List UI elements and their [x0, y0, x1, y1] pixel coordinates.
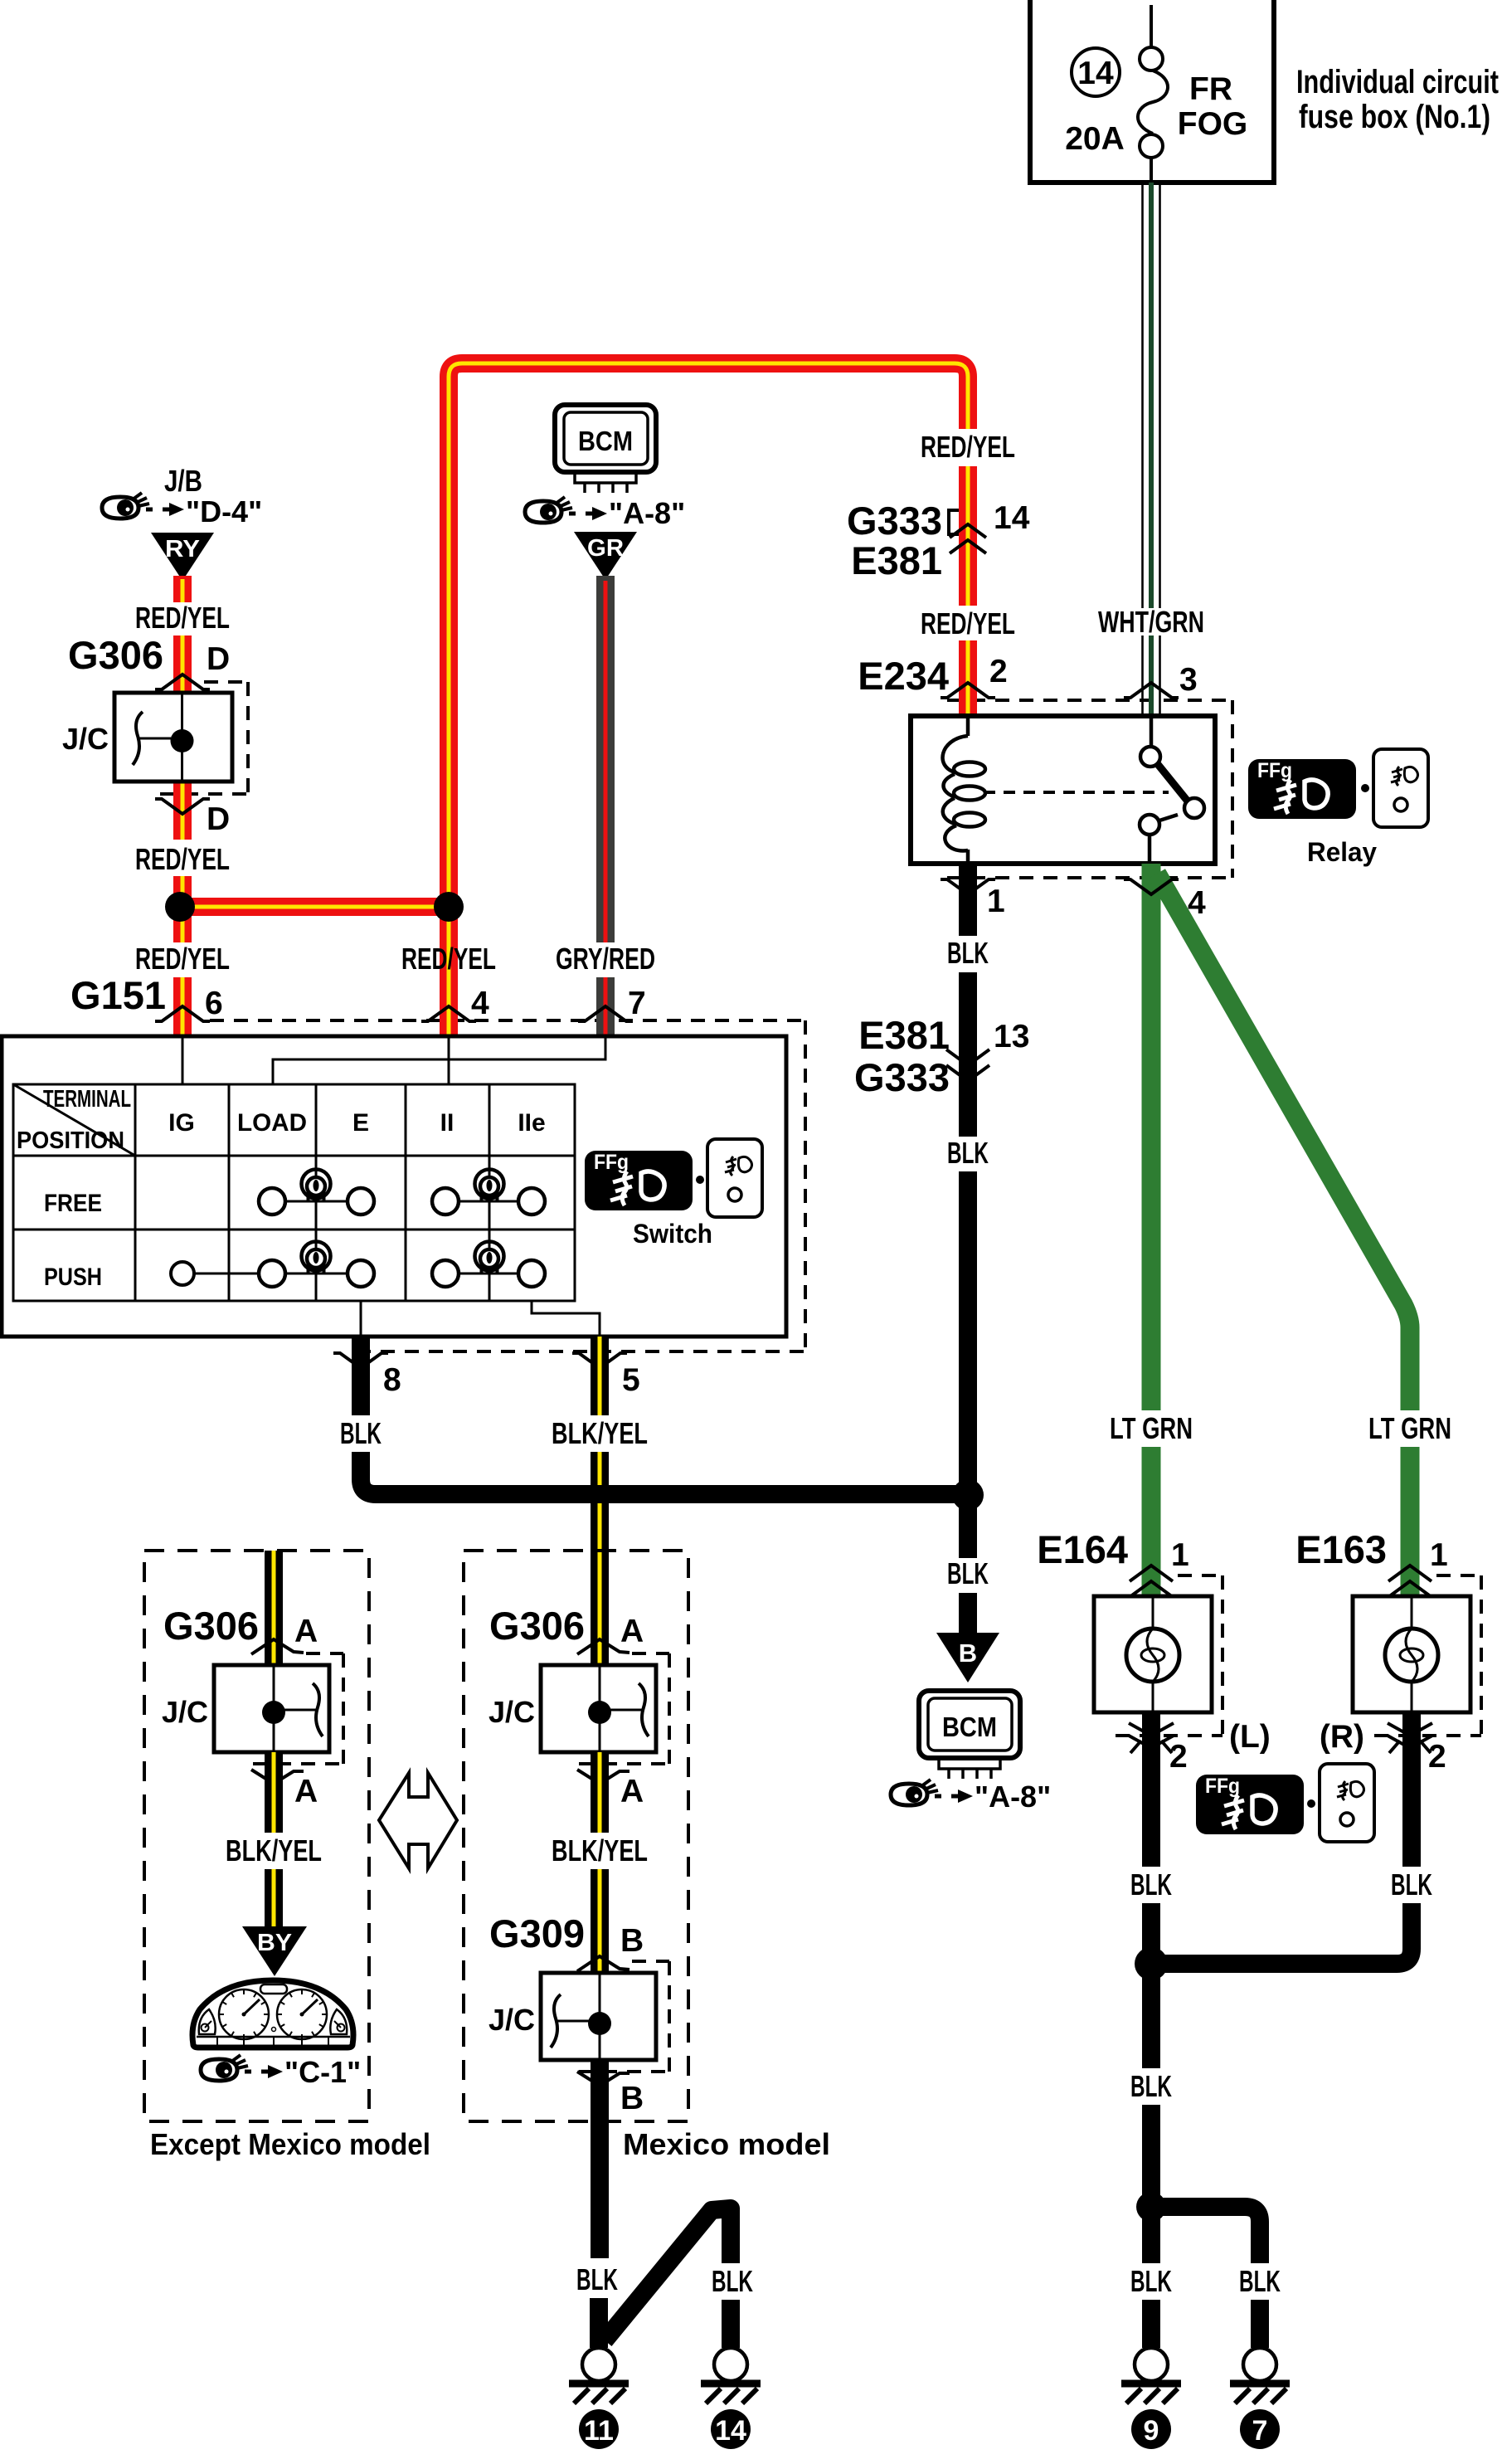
relay box	[911, 716, 1215, 864]
fog icon pair between lamps	[1196, 1775, 1304, 1834]
J/C box G309	[541, 1973, 656, 2060]
pin A chevron (in)	[251, 1639, 304, 1654]
svg-text:G306: G306	[68, 633, 163, 677]
eye icon	[201, 2055, 248, 2081]
svg-text:BLK/YEL: BLK/YEL	[552, 1833, 648, 1867]
dashed arrow	[245, 2070, 270, 2074]
dashed arrow to D-4	[146, 508, 171, 512]
BCM module (top)	[525, 405, 685, 580]
wire BLK from relay pin1 down to B arrow	[854, 864, 1029, 1682]
svg-text:2: 2	[1428, 1739, 1446, 1775]
svg-text:"A-8": "A-8"	[975, 1780, 1051, 1814]
fuse number 14 circle	[1072, 48, 1120, 96]
svg-text:"C-1": "C-1"	[284, 2055, 361, 2089]
pin 6 chevron	[155, 1006, 210, 1021]
pin 8 chevron	[333, 1353, 388, 1368]
wire BLK from E163 pin2 joining left	[1135, 1712, 1432, 1980]
svg-text:RED/YEL: RED/YEL	[401, 942, 496, 976]
svg-text:20A: 20A	[1065, 121, 1125, 157]
eye icon	[525, 497, 572, 523]
bulb	[1126, 1629, 1179, 1682]
svg-text:PUSH: PUSH	[44, 1264, 102, 1291]
Individual circuit fuse box (No.1)	[1030, 0, 1499, 183]
svg-text:J/C: J/C	[162, 1695, 208, 1729]
svg-text:(L): (L)	[1229, 1719, 1271, 1755]
svg-text:Switch: Switch	[633, 1219, 712, 1249]
svg-text:RED/YEL: RED/YEL	[135, 601, 230, 635]
svg-text:11: 11	[584, 2415, 614, 2447]
instrument cluster icon	[192, 1980, 353, 2048]
svg-text:FOG: FOG	[1178, 106, 1248, 142]
wire RED/YEL top run from BCM corner to E234	[401, 363, 1015, 1036]
node J/B "D-4" reference	[102, 464, 262, 581]
lamp box	[1094, 1596, 1212, 1712]
junction dot	[1135, 1947, 1168, 1980]
wire BLK to ground 11	[576, 2262, 618, 2348]
pin B chevron (out)	[577, 2072, 629, 2086]
svg-text:BLK: BLK	[712, 2264, 753, 2298]
svg-text:BLK: BLK	[1130, 2264, 1172, 2298]
svg-text:BLK: BLK	[947, 1136, 989, 1170]
svg-text:Except Mexico model: Except Mexico model	[150, 2127, 430, 2161]
pin 2 double chevron	[1129, 1723, 1174, 1736]
svg-text:2: 2	[989, 654, 1008, 689]
lamp box	[1353, 1596, 1470, 1712]
eye icon	[102, 493, 149, 519]
triangle GR	[574, 532, 637, 580]
svg-text:RED/YEL: RED/YEL	[921, 430, 1015, 464]
svg-text:WHT/GRN: WHT/GRN	[1098, 605, 1204, 639]
pin 3 chevron	[1124, 683, 1179, 698]
E163 connector dashed outline	[1374, 1575, 1481, 1736]
svg-text:4: 4	[1188, 885, 1206, 921]
svg-text:13: 13	[994, 1019, 1029, 1054]
svg-text:II: II	[440, 1109, 454, 1137]
PUSH row contacts IG-LOAD-E	[171, 1242, 374, 1288]
squiggle	[551, 1994, 561, 2048]
svg-text:IIe: IIe	[518, 1109, 545, 1137]
relay switch icon (white)	[1373, 749, 1428, 827]
svg-text:14: 14	[1077, 56, 1114, 91]
arrow B to BCM	[936, 1633, 999, 1682]
svg-text:Relay: Relay	[1307, 837, 1377, 867]
svg-text:A: A	[620, 1774, 644, 1809]
svg-text:G306: G306	[489, 1604, 585, 1648]
svg-text:D: D	[207, 801, 230, 837]
pin 4 chevron	[421, 1006, 476, 1021]
svg-text:B: B	[620, 2081, 644, 2116]
eye icon	[891, 1780, 938, 1805]
pin D chevron (in)	[155, 674, 210, 689]
svg-text:BLK: BLK	[947, 936, 989, 970]
svg-text:J/C: J/C	[489, 2003, 535, 2037]
pin 5 chevron	[572, 1353, 627, 1368]
triangle RY (from junction block)	[151, 533, 214, 581]
svg-text:B: B	[620, 1923, 644, 1959]
wire RED/YEL left branch (x=220)	[135, 576, 230, 1036]
svg-text:G306: G306	[163, 1604, 259, 1648]
svg-text:8: 8	[383, 1362, 401, 1398]
J/C box	[541, 1665, 656, 1752]
junction dot	[262, 1701, 285, 1724]
junction dot right	[434, 892, 464, 922]
connector E234 pin 2	[858, 654, 1007, 698]
wire RED/YEL horizontal between junctions	[165, 892, 464, 922]
svg-text:LT GRN: LT GRN	[1368, 1411, 1451, 1445]
svg-text:G333: G333	[854, 1055, 950, 1099]
ground 11	[569, 2348, 629, 2449]
pin 1 chevron	[941, 879, 995, 894]
svg-text:Individual circuit: Individual circuit	[1296, 64, 1499, 100]
G333 in-line connector square	[949, 510, 968, 534]
svg-text:BLK: BLK	[576, 2262, 618, 2296]
svg-text:BLK: BLK	[947, 1556, 989, 1590]
svg-text:BLK/YEL: BLK/YEL	[552, 1416, 648, 1450]
J/C box	[214, 1665, 329, 1752]
pin 2 double chevron	[1388, 1723, 1432, 1736]
G309 inner connector dashed outline	[579, 1961, 669, 2072]
junction dot	[1136, 2192, 1166, 2222]
ground 9	[1121, 2348, 1181, 2449]
wire LT GRN relay pin4 diagonal to E163 (right lamp)	[1157, 874, 1451, 1596]
double chevron pin 1	[1388, 1566, 1432, 1581]
BCM module (bottom)	[891, 1691, 1051, 1814]
dot separator	[696, 1176, 704, 1184]
svg-text:E381: E381	[858, 1013, 950, 1057]
fuse 14 20A FR FOG	[1138, 5, 1168, 183]
dashed arrow	[935, 1794, 960, 1799]
pin A chevron (out)	[577, 1770, 629, 1784]
pin D chevron (out)	[155, 799, 210, 814]
svg-text:1: 1	[1171, 1537, 1189, 1573]
svg-text:(R): (R)	[1320, 1719, 1364, 1755]
double chevron up	[950, 524, 986, 538]
wire BLK/YEL to BY arrow	[265, 1752, 283, 1833]
svg-text:14: 14	[715, 2415, 746, 2447]
pin 4 chevron	[1124, 879, 1179, 894]
pin B chevron (in)	[577, 1956, 629, 1971]
wire BLK branch to ground 7	[1130, 2192, 1281, 2348]
dot separator	[1361, 784, 1369, 792]
Mexico model variant box	[464, 1551, 830, 2258]
squiggle	[639, 1683, 649, 1736]
svg-text:BLK: BLK	[1391, 1867, 1432, 1902]
squiggle	[313, 1683, 323, 1736]
svg-text:A: A	[294, 1614, 318, 1649]
wire BLK below G309	[591, 2060, 609, 2258]
relay actuation dashed link	[984, 791, 1169, 794]
E164 connector dashed outline	[1116, 1575, 1223, 1736]
junction dot left	[165, 892, 195, 922]
pin A chevron (out)	[251, 1770, 304, 1784]
svg-text:6: 6	[205, 986, 223, 1021]
wire BLK/YEL from switch pin 5 down	[552, 1337, 648, 1665]
J/C box	[114, 693, 232, 782]
junction dot	[588, 1701, 611, 1724]
junction dot with pin8 horizontal	[952, 1479, 984, 1511]
svg-text:FR: FR	[1189, 71, 1232, 107]
svg-text:7: 7	[628, 986, 646, 1021]
connector/variant dashed outlines (under-layer)	[160, 510, 1481, 2072]
svg-text:GRY/RED: GRY/RED	[556, 942, 655, 976]
Except Mexico model variant box	[144, 1551, 430, 2161]
svg-text:BLK: BLK	[340, 1416, 382, 1450]
svg-text:BLK: BLK	[1239, 2264, 1281, 2298]
svg-text:5: 5	[622, 1362, 640, 1398]
wire BLK/YEL (variant)	[265, 1551, 283, 1665]
svg-text:Mexico model: Mexico model	[623, 2127, 830, 2161]
switch icon (white)	[707, 1139, 762, 1217]
internal wires	[182, 1036, 605, 1337]
pin 7 chevron	[578, 1006, 633, 1021]
svg-text:E163: E163	[1295, 1527, 1387, 1571]
svg-text:POSITION: POSITION	[17, 1127, 124, 1154]
relay FR FOG	[911, 716, 1215, 864]
switch fog icon (black)	[585, 1151, 693, 1210]
svg-text:1: 1	[1430, 1537, 1448, 1573]
svg-text:GR: GR	[587, 535, 624, 562]
svg-text:BLK: BLK	[1130, 2069, 1172, 2103]
pin A chevron (in)	[577, 1639, 629, 1654]
svg-text:1: 1	[987, 884, 1005, 919]
svg-text:BLK: BLK	[1130, 1867, 1172, 1902]
svg-text:E: E	[352, 1109, 369, 1137]
triangle BY (to meter)	[242, 1926, 307, 1976]
svg-text:LT GRN: LT GRN	[1110, 1411, 1193, 1445]
svg-text:J/C: J/C	[62, 722, 109, 756]
junction connector G306 (top)	[62, 633, 232, 837]
svg-text:BY: BY	[257, 1930, 292, 1956]
svg-text:D: D	[207, 641, 230, 677]
G306 top connector dashed outline	[160, 682, 248, 794]
fog light switch	[2, 973, 786, 1398]
svg-text:E234: E234	[858, 654, 949, 698]
svg-text:A: A	[294, 1774, 318, 1809]
relay connector dashed outline	[947, 700, 1232, 878]
svg-text:BLK/YEL: BLK/YEL	[226, 1833, 322, 1867]
svg-text:FREE: FREE	[44, 1190, 102, 1217]
svg-text:IG: IG	[168, 1109, 195, 1137]
switch connector dashed outline	[210, 1020, 805, 1351]
wire BLK from switch pin 8 to junction	[340, 1337, 968, 1494]
fog lamp E163 (R)	[1295, 1527, 1470, 1775]
G306 Mexico inner connector dashed outline	[579, 1653, 669, 1764]
junction dot	[588, 2012, 611, 2035]
svg-text:A: A	[620, 1614, 644, 1649]
svg-text:RED/YEL: RED/YEL	[135, 842, 230, 876]
svg-text:RY: RY	[165, 536, 200, 562]
svg-text:3: 3	[1179, 662, 1198, 698]
fog lamp E164 (L)	[1037, 1527, 1271, 1775]
svg-text:J/B: J/B	[164, 464, 202, 498]
relay fog icon (black)	[1248, 759, 1356, 819]
svg-text:2: 2	[1169, 1739, 1188, 1775]
svg-text:RED/YEL: RED/YEL	[135, 942, 230, 976]
relay coil	[943, 716, 985, 864]
svg-text:14: 14	[994, 500, 1030, 536]
G306 left inner connector dashed outline	[253, 1653, 343, 1764]
bulb	[1385, 1629, 1438, 1682]
svg-text:4: 4	[471, 986, 489, 1021]
svg-text:TERMINAL: TERMINAL	[43, 1086, 131, 1113]
svg-text:E381: E381	[851, 538, 942, 582]
svg-text:B: B	[959, 1639, 977, 1668]
wire BLK branch to ground 14	[605, 2208, 753, 2348]
squiggle	[133, 712, 143, 765]
PUSH row contacts II-IIe	[432, 1242, 545, 1288]
svg-text:9: 9	[1144, 2415, 1159, 2447]
relay contact	[1140, 716, 1204, 864]
svg-text:fuse box (No.1): fuse box (No.1)	[1299, 99, 1490, 135]
svg-text:G309: G309	[489, 1911, 585, 1955]
switch box	[2, 1036, 786, 1337]
double chevron pin 1	[1130, 1566, 1173, 1581]
wire LT GRN relay pin4 to E164 (left lamp)	[1110, 864, 1193, 1596]
svg-text:BCM: BCM	[942, 1712, 997, 1742]
svg-text:G151: G151	[70, 973, 166, 1017]
wire GRY/RED from BCM to switch pin 7	[556, 576, 655, 1036]
svg-text:E164: E164	[1037, 1527, 1128, 1571]
svg-text:RED/YEL: RED/YEL	[921, 606, 1015, 640]
ground 14	[701, 2348, 761, 2449]
svg-text:J/C: J/C	[489, 1695, 535, 1729]
ground 7	[1230, 2348, 1290, 2449]
wire BLK from E164 pin2 to ground 9	[1130, 1712, 1172, 2263]
svg-text:7: 7	[1252, 2415, 1268, 2447]
wire WHT/GRN from fuse to relay pin 3	[1098, 183, 1204, 716]
dashed arrow	[569, 512, 594, 516]
junction dot	[171, 729, 194, 752]
svg-text:"D-4": "D-4"	[186, 494, 262, 528]
svg-text:BCM: BCM	[578, 426, 633, 456]
FREE row contacts LOAD-E	[259, 1170, 374, 1215]
wire BLK/YEL to G309	[591, 1752, 609, 1833]
svg-text:G333: G333	[847, 499, 942, 543]
terminal table	[13, 1084, 575, 1301]
FREE row contacts II-IIe	[432, 1170, 545, 1215]
double arrow (either-or)	[379, 1773, 457, 1868]
in-line connector G333/E381 pin 14	[847, 499, 1030, 582]
svg-text:LOAD: LOAD	[237, 1109, 307, 1137]
svg-text:"A-8": "A-8"	[609, 496, 685, 530]
